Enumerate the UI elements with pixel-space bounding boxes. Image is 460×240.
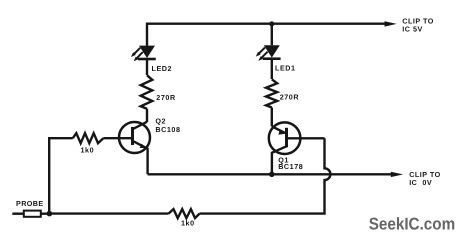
svg-text:270R: 270R — [280, 92, 300, 101]
wire LED2 cathode to resistor — [146, 60, 148, 75]
wire 0V rail — [148, 173, 392, 175]
LED1 — [256, 45, 281, 61]
svg-text:270R: 270R — [156, 93, 176, 102]
node junction Q1 collector on 0V rail — [269, 172, 275, 178]
svg-text:LED2: LED2 — [152, 64, 173, 73]
svg-text:1k0: 1k0 — [181, 218, 195, 227]
resistor 270R right — [266, 79, 277, 107]
arrow to 0V clip — [391, 172, 403, 177]
wire LED1 anode drop — [271, 24, 273, 46]
transistor Q2 BC108 — [119, 122, 150, 175]
wire Q1 base down with hop over 0V rail — [200, 138, 331, 213]
resistor 1k0 base Q2 — [73, 133, 104, 143]
wire resistor to Q2 collector — [146, 109, 148, 122]
wire 5V top rail — [147, 24, 385, 46]
wire LED1 cathode to resistor — [271, 60, 273, 79]
wire base resistor to Q2 base — [103, 137, 131, 139]
svg-text:IC 5V: IC 5V — [402, 24, 422, 33]
svg-text:LED1: LED1 — [275, 63, 296, 72]
resistor 1k0 probe to Q1 — [169, 209, 200, 218]
wire probe line — [49, 212, 168, 214]
arrow to 5V clip — [385, 21, 397, 26]
wire resistor to Q1 emitter — [271, 108, 273, 127]
wire probe node up to base resistor — [49, 138, 73, 213]
svg-text:IC 0V: IC 0V — [409, 178, 432, 187]
node junction probe — [47, 211, 53, 217]
LED2 — [131, 46, 156, 62]
svg-text:1k0: 1k0 — [81, 146, 95, 155]
svg-text:PROBE: PROBE — [16, 199, 44, 208]
resistor 270R left — [141, 75, 153, 108]
svg-text:SeekIC.com: SeekIC.com — [369, 215, 456, 234]
node junction LED1 branch on 5V rail — [269, 21, 274, 26]
transistor Q1 BC178 — [269, 122, 325, 174]
svg-text:BC108: BC108 — [155, 125, 180, 134]
probe terminal — [12, 211, 49, 217]
svg-text:BC178: BC178 — [278, 162, 303, 171]
